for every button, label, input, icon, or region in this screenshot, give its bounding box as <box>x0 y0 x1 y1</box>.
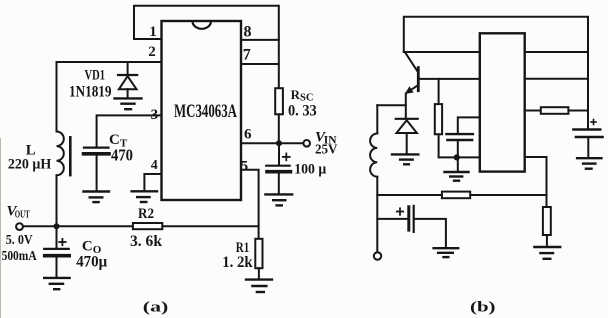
svg-text:5. 0V: 5. 0V <box>6 233 33 248</box>
capacitor Cb1 top plate <box>446 133 473 135</box>
wire R1 to ground <box>258 268 260 279</box>
wire inductor b down to terminal <box>376 177 378 253</box>
ground Co <box>44 278 69 289</box>
wire C100u to ground <box>278 174 280 194</box>
svg-text:1N1819: 1N1819 <box>69 83 112 100</box>
svg-text:8: 8 <box>244 24 252 41</box>
diode VD1 triangle <box>119 76 137 89</box>
wire inductor to Vout node <box>56 175 58 248</box>
svg-text:3: 3 <box>151 107 159 123</box>
op-amp U1 MC34063A IC body <box>162 21 242 200</box>
capacitor C 100u top plate <box>266 165 289 167</box>
ground C100u <box>265 194 292 205</box>
wire cap row b <box>377 218 407 220</box>
wire right row2 b <box>525 78 588 80</box>
terminal Vout circle <box>16 223 23 230</box>
wire base row b <box>418 78 480 80</box>
capacitor Cb2 left plate <box>407 207 410 230</box>
capacitor Co plus sign <box>59 239 65 245</box>
resistor R2b body <box>442 192 470 199</box>
ground Cb1 <box>445 172 469 181</box>
wire Cb2 to ground <box>415 219 446 248</box>
svg-text:MC34063A: MC34063A <box>174 101 237 122</box>
svg-text:(a): (a) <box>143 300 169 316</box>
wire CT to ground <box>96 156 98 191</box>
wire pin1 <box>134 38 162 40</box>
wire emitter vertical b <box>405 94 407 119</box>
node Vin junction dot <box>276 140 282 146</box>
svg-text:470: 470 <box>111 145 133 164</box>
wire pin8 <box>241 39 279 41</box>
resistor Rb body <box>435 104 442 134</box>
svg-text:3. 6k: 3. 6k <box>130 233 162 250</box>
diode VD1 stub <box>127 62 129 75</box>
wire bottom row b <box>377 194 546 196</box>
op-amp U2 IC body b <box>480 33 525 171</box>
diode VD b triangle <box>397 120 417 133</box>
svg-text:5: 5 <box>241 159 249 175</box>
svg-text:7: 7 <box>243 47 251 64</box>
wire top rail b <box>404 17 588 129</box>
resistor Rscb body <box>541 107 569 114</box>
resistor Rsc body <box>275 88 283 114</box>
svg-text:500mA: 500mA <box>2 248 37 263</box>
svg-text:0. 33: 0. 33 <box>288 103 317 120</box>
wire VD1 anode to ground <box>127 89 129 98</box>
terminal circle b <box>374 252 381 259</box>
svg-text:220 μH: 220 μH <box>8 156 52 172</box>
ground pin4 <box>132 191 157 202</box>
capacitor Cinb bottom plate <box>576 136 603 139</box>
inductor L coil <box>57 132 64 176</box>
transistor Q1 collector lead <box>405 53 417 72</box>
wire collector row b <box>404 51 480 53</box>
svg-text:OUT: OUT <box>15 210 30 221</box>
wire R1b to ground <box>546 235 548 246</box>
capacitor Cb2 right plate <box>413 206 415 232</box>
wire Co to ground <box>56 258 58 277</box>
capacitor Cinb top plate <box>573 128 600 130</box>
inductor L b vertical top <box>376 105 378 133</box>
svg-text:6: 6 <box>244 126 252 142</box>
svg-text:VD1: VD1 <box>85 67 106 83</box>
wire right row1 b <box>525 51 588 53</box>
wire pin2 <box>57 61 162 63</box>
diode VD b cathode bar <box>396 118 418 120</box>
wire pin6 to Vin terminal <box>241 142 303 144</box>
inductor L core bar <box>69 137 72 175</box>
capacitor Cb1 bottom plate <box>448 139 473 142</box>
svg-text:4: 4 <box>151 158 158 173</box>
capacitor Cb2 plus sign <box>397 208 403 214</box>
svg-text:470μ: 470μ <box>76 253 107 270</box>
wire left vertical pin2 to inductor <box>56 62 58 132</box>
node Vout junction dot <box>54 223 60 229</box>
wire emitter node to inductor b <box>377 104 406 106</box>
wire right vertical pin8/pin7 to Rsc <box>278 40 280 88</box>
wire right bottom pin to R1b <box>525 157 547 207</box>
svg-text:100 μ: 100 μ <box>294 162 326 178</box>
wire pin3 <box>97 115 162 147</box>
capacitor CT top plate <box>84 147 109 149</box>
capacitor Cb1 stub <box>458 117 480 133</box>
wire top loop pin1 to pin8 <box>134 6 279 40</box>
svg-text:RSC: RSC <box>291 87 314 104</box>
resistor R1b body <box>543 207 551 235</box>
svg-text:R2: R2 <box>138 206 154 222</box>
transistor Q1 base bar <box>417 68 420 91</box>
wire pin4 <box>144 174 161 190</box>
ground Cinb <box>577 158 601 169</box>
svg-text:(b): (b) <box>470 300 496 316</box>
capacitor C 100u plus sign <box>283 154 290 161</box>
wire pin5 down to R1 <box>241 170 259 239</box>
capacitor Co top plate <box>44 248 68 250</box>
capacitor Cinb plus sign <box>591 120 596 125</box>
ground VD1 <box>115 98 142 109</box>
svg-text:25V: 25V <box>315 143 338 158</box>
wire diode to ground b <box>406 133 408 154</box>
wire Rb to bottom-left pin row <box>439 134 480 157</box>
ground R1b <box>534 247 560 259</box>
wire Cb1 to ground <box>457 140 459 171</box>
resistor Rb wire from base <box>438 79 440 104</box>
resistor R2 body <box>133 223 162 229</box>
capacitor C 100u bottom plate <box>267 170 291 174</box>
transistor Q1 emitter lead with arrow <box>407 85 418 92</box>
IC notch <box>193 22 211 29</box>
ground CT <box>84 192 110 203</box>
inductor L b coil <box>370 134 377 177</box>
svg-text:2: 2 <box>148 44 156 60</box>
ground R1 <box>246 280 272 292</box>
resistor R1 body <box>255 239 262 268</box>
wire pin7 <box>241 63 279 65</box>
terminal Vin circle <box>303 140 310 147</box>
ground Cb2 <box>434 248 459 257</box>
node dot b <box>454 154 460 160</box>
wire feedback R2 row <box>23 225 259 227</box>
svg-text:1: 1 <box>149 24 157 40</box>
capacitor C 100u wire from node <box>278 143 280 165</box>
wire right row3 b with resistor Rsc-b <box>525 110 588 112</box>
diode VD1 cathode bar <box>118 74 137 76</box>
wire Cinb to ground <box>587 137 589 157</box>
wire Rsc to Vin node <box>278 114 280 143</box>
ground diode b <box>392 154 418 164</box>
svg-text:1. 2k: 1. 2k <box>222 254 253 271</box>
capacitor Co bottom plate <box>45 254 69 258</box>
capacitor CT bottom plate <box>84 152 110 156</box>
